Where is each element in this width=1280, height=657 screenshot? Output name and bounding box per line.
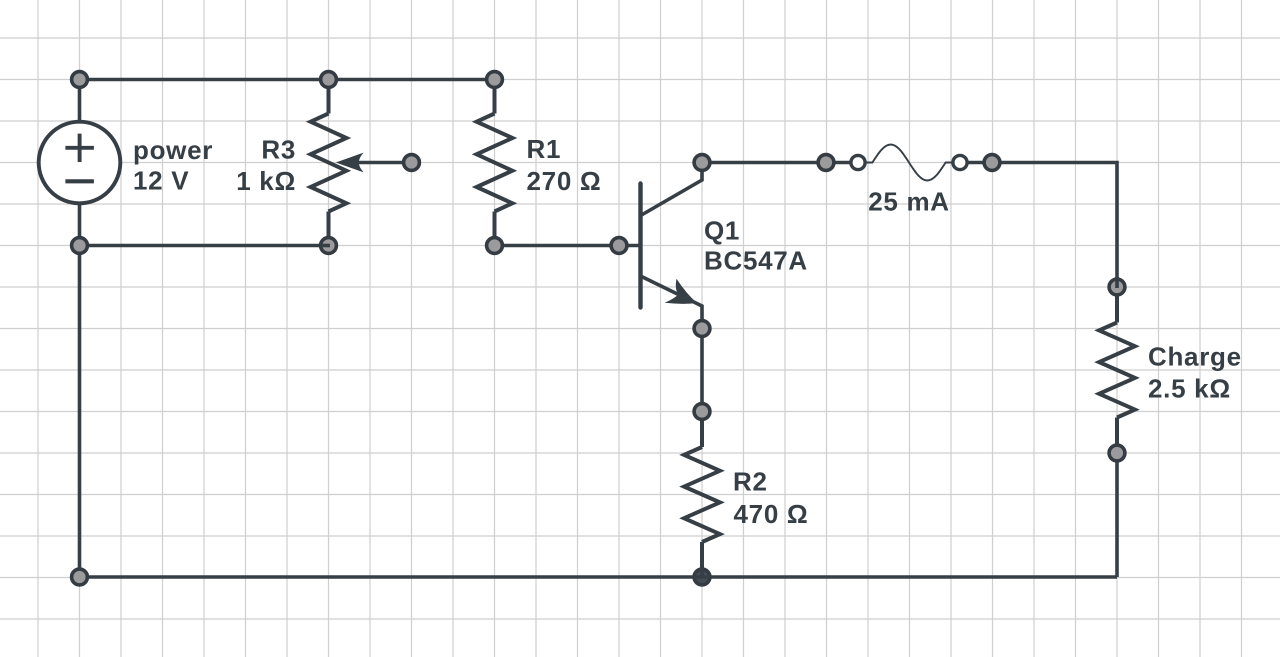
potentiometer R3 1 kOhm [311,80,347,246]
wire: left rail down to bottom [78,246,82,578]
node: Q1 emitter terminal [694,321,710,337]
resistor R1 270 Ohm [477,80,513,246]
Q1 emitter lead [642,277,703,329]
node: R3 wiper terminal [404,155,420,171]
wire: charge bottom to bottom rail [1115,453,1119,577]
svg-text:270 Ω: 270 Ω [527,166,602,196]
node: R2 top terminal [694,404,710,420]
node: charge bottom terminal [1109,445,1125,461]
node: source bottom junction [72,238,88,254]
wire: top net from source to R3 and R1 [80,78,495,82]
svg-text:470 Ω: 470 Ω [734,499,809,529]
svg-text:Q1: Q1 [704,216,740,246]
node: bottom-left junction [72,569,88,585]
node: charge top terminal [1109,279,1125,295]
wire: source bottom to R3 bottom [80,244,329,248]
ammeter left pin circle [851,155,865,169]
wire stub over R2 bottom junction [694,568,710,577]
node: R3 top terminal [321,72,337,88]
transistor Q1 BC547A [641,163,703,329]
wire stub over R3 bottom terminal [320,244,330,248]
resistor R2 470 Ohm [684,329,720,578]
node: source top junction [72,72,88,88]
svg-text:R3: R3 [261,135,296,165]
svg-text:25 mA: 25 mA [868,187,950,217]
R3 wiper arrow [336,153,364,173]
ammeter right pin circle [953,155,967,169]
voltage source V1 power 12 V [39,122,121,204]
svg-text:12 V: 12 V [133,166,189,196]
node: Q1 collector terminal [694,155,710,171]
node: R1 bottom terminal [487,238,503,254]
svg-text:BC547A: BC547A [704,246,808,276]
R3 wiper wire [352,161,412,165]
node: R3 bottom terminal [321,238,337,254]
svg-text:1 kΩ: 1 kΩ [236,166,296,196]
wire: collector net to ammeter [702,161,864,165]
wire stub over charge top terminal [1115,277,1119,288]
node: ammeter right terminal [984,155,1000,171]
svg-text:2.5 kΩ: 2.5 kΩ [1148,374,1231,404]
resistor Charge 2.5 kOhm [1099,287,1135,453]
ammeter AM1 sine element [866,145,953,181]
Q1 base bar [638,184,642,308]
svg-text:Charge: Charge [1148,342,1242,372]
wire: R1 bottom to Q1 base [495,244,641,248]
wire: ammeter to charge corner [954,163,1117,288]
wire: source top lead [78,80,82,123]
svg-text:power: power [133,135,213,165]
wire: source bottom lead [78,204,82,246]
Q1 emitter arrow [665,279,698,304]
node: ammeter left terminal [818,155,834,171]
svg-text:R1: R1 [527,134,562,164]
svg-text:R2: R2 [733,467,768,497]
Q1 collector lead [642,163,703,216]
node: R1 top terminal [487,72,503,88]
node: Q1 base terminal [611,238,627,254]
node: R2 bottom junction [694,569,710,585]
wire: bottom rail [80,575,1118,579]
